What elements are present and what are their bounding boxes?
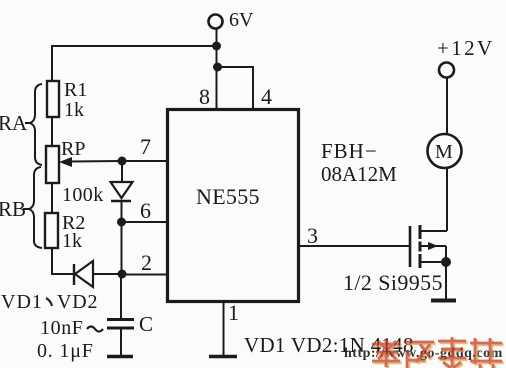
svg-text:R1: R1: [64, 79, 87, 101]
MOSFET Q1 channel segments: [419, 225, 422, 268]
diode VD1 cathode wire: [121, 201, 123, 222]
junction dot source: [441, 257, 451, 267]
potentiometer RP: [46, 146, 59, 183]
MOSFET Q1 drain stub: [420, 230, 447, 232]
diode VD1 cathode bar: [111, 200, 131, 202]
junction dot node 2: [118, 270, 127, 279]
junction dot pin4 branch: [213, 63, 222, 72]
junction dot node 7: [118, 157, 127, 166]
wire pin 3 to gate: [299, 245, 409, 247]
wire R2 bottom to diode VD2: [52, 248, 74, 274]
capacitor C top plate: [107, 318, 134, 321]
svg-text:RB: RB: [0, 197, 26, 221]
motor M body: [428, 134, 462, 168]
wire source to ground: [445, 262, 447, 299]
svg-text:FBH−: FBH−: [321, 139, 378, 163]
wire VD2 to node 2: [93, 273, 122, 275]
svg-text:RA: RA: [0, 111, 28, 135]
svg-text:6: 6: [140, 198, 151, 223]
svg-text:2: 2: [141, 250, 152, 275]
brace RA: [25, 84, 42, 165]
wire 6V down to pin 8: [216, 29, 218, 110]
MOSFET Q1 gate bar: [409, 226, 412, 267]
wire node 6 to pin 6: [122, 221, 168, 223]
diode VD1 triangle: [111, 182, 133, 198]
wire R1 to RP: [51, 117, 53, 146]
power terminal +12V: [439, 63, 454, 78]
svg-text:6V: 6V: [229, 9, 254, 31]
wire pin 4 loop: [218, 67, 254, 109]
wire node 7 to pin 7: [122, 160, 167, 162]
wire RP to R2: [51, 183, 53, 213]
wire drain to motor: [446, 167, 448, 231]
svg-text:RP: RP: [61, 138, 85, 160]
svg-text:3: 3: [307, 223, 318, 248]
power terminal 6V: [209, 15, 223, 29]
diode VD2 triangle: [75, 261, 93, 287]
svg-text:100k: 100k: [62, 184, 104, 206]
wire capacitor to ground: [120, 328, 122, 356]
diode VD2 cathode bar: [73, 264, 75, 285]
resistor R1: [47, 81, 59, 117]
diode VD1 anode wire: [121, 161, 123, 182]
wire node 6 to node 2: [121, 222, 123, 274]
wiper arrowhead: [59, 157, 72, 167]
ground bar source: [431, 299, 456, 303]
wire node 2 down to capacitor: [120, 274, 122, 319]
svg-text:1k: 1k: [62, 230, 82, 252]
svg-text:+12V: +12V: [437, 36, 495, 60]
ground bar capacitor: [107, 355, 133, 359]
capacitor C bottom plate: [107, 327, 134, 330]
resistor R2: [45, 213, 58, 248]
svg-text:VD2: VD2: [57, 291, 98, 313]
svg-text:10nF: 10nF: [40, 317, 84, 339]
watermark characters: [372, 337, 504, 368]
svg-text:08A12M: 08A12M: [321, 162, 397, 186]
svg-text:8: 8: [199, 84, 210, 109]
svg-text:1: 1: [228, 300, 239, 325]
ground bar pin 1: [209, 355, 237, 359]
MOSFET Q1 body stub with arrow: [420, 242, 446, 262]
wire top-left rail to R1: [52, 46, 217, 82]
svg-text:1k: 1k: [64, 99, 84, 121]
svg-text:7: 7: [140, 134, 151, 159]
svg-text:1/2 Si9955: 1/2 Si9955: [343, 270, 443, 295]
junction dot node 6: [117, 218, 126, 227]
IC U1 NE555 body: [168, 110, 299, 302]
svg-text:0. 1μF: 0. 1μF: [37, 340, 94, 362]
svg-text:NE555: NE555: [196, 184, 260, 209]
wire node 2 to pin 2: [122, 274, 167, 276]
MOSFET Q1 source stub: [420, 261, 446, 263]
wiper wire RP to node 7: [70, 160, 122, 163]
wire pin 1 to ground: [223, 302, 225, 356]
brace RB: [23, 167, 42, 248]
svg-text:4: 4: [261, 84, 272, 109]
tilde of 10nF~: [87, 327, 103, 332]
svg-text:C: C: [139, 312, 153, 336]
label VD1 VD2 (left): [1, 291, 98, 313]
svg-text:VD1: VD1: [1, 291, 43, 313]
wire motor to +12V: [446, 77, 448, 134]
junction dot top-left rail: [212, 42, 221, 51]
svg-text:M: M: [435, 141, 453, 163]
